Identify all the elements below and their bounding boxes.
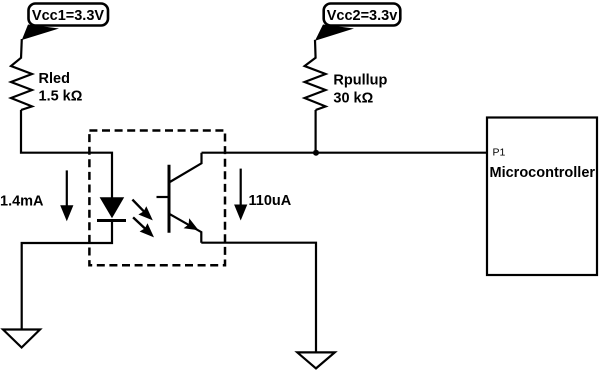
svg-text:Rpullup: Rpullup [333, 73, 387, 89]
current label 110uA [234, 169, 292, 221]
svg-text:1.5 kΩ: 1.5 kΩ [39, 89, 83, 105]
wire Rpullup to node [315, 110, 317, 153]
label Rled 1.5 kOhm [39, 71, 83, 105]
svg-text:Vcc2=3.3v: Vcc2=3.3v [327, 8, 398, 24]
LED (opto emitter diode) [97, 197, 126, 220]
microcontroller P1 box [487, 118, 597, 276]
wire LED cathode to ground [22, 221, 112, 331]
wire emitter to ground [201, 243, 316, 353]
wire collector to microcontroller [202, 152, 488, 154]
svg-text:110uA: 110uA [249, 193, 292, 209]
phototransistor Q1 [157, 153, 202, 243]
label Rpullup 30 kOhm [333, 73, 387, 107]
resistor Rpullup [305, 58, 326, 110]
svg-text:P1: P1 [493, 147, 506, 159]
light arrow 1 [132, 200, 152, 221]
power label Vcc2 [315, 4, 400, 41]
optocoupler dashed box [89, 131, 225, 266]
svg-text:Microcontroller: Microcontroller [490, 165, 596, 181]
light arrow 2 [133, 217, 154, 237]
resistor Rled [11, 58, 32, 110]
ground (middle) [297, 352, 335, 368]
wire Rled to LED anode [21, 110, 112, 198]
wire Vcc1 to Rled [20, 39, 23, 59]
svg-text:Vcc1=3.3V: Vcc1=3.3V [32, 8, 104, 24]
svg-text:30 kΩ: 30 kΩ [333, 91, 373, 107]
wire Vcc2 to Rpullup [314, 40, 317, 59]
power label Vcc1 [22, 4, 108, 41]
ground (left) [3, 330, 40, 348]
current label 1.4mA [0, 170, 73, 221]
node junction [313, 150, 319, 156]
svg-text:1.4mA: 1.4mA [0, 194, 44, 210]
svg-text:Rled: Rled [39, 71, 70, 87]
